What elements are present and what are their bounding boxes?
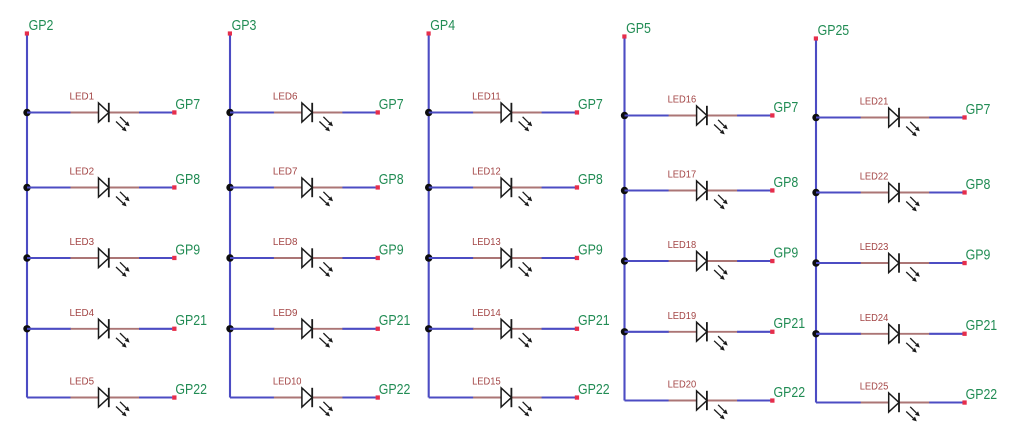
junction node GP3/LED6 [226, 109, 233, 116]
junction node GP2/LED2 [23, 184, 30, 191]
LED LED17 [669, 181, 738, 210]
wire GP5 to LED20 anode [625, 399, 670, 401]
svg-text:GP3: GP3 [232, 18, 257, 34]
svg-text:LED25: LED25 [860, 382, 889, 393]
LED LED25 [861, 393, 930, 422]
terminal GP22 [962, 400, 966, 404]
svg-text:GP21: GP21 [966, 318, 998, 334]
wire GP2 vertical bus [26, 36, 28, 398]
LED LED24 [861, 324, 930, 353]
svg-text:LED5: LED5 [70, 377, 95, 388]
LED LED2 [71, 178, 140, 207]
svg-text:LED22: LED22 [860, 172, 889, 183]
svg-text:LED17: LED17 [668, 170, 697, 181]
junction node GP2/LED3 [23, 254, 30, 261]
svg-text:GP7: GP7 [379, 97, 404, 113]
svg-text:GP9: GP9 [578, 242, 603, 258]
LED LED7 [274, 178, 343, 207]
terminal GP21 [575, 327, 579, 331]
terminal GP8 [770, 188, 774, 192]
svg-text:LED18: LED18 [668, 240, 697, 251]
wire GP3 to LED7 anode [230, 186, 274, 188]
terminal GP7 [770, 113, 774, 117]
svg-text:LED14: LED14 [472, 308, 501, 319]
svg-text:LED3: LED3 [70, 237, 95, 248]
wire LED7 cathode to GP8 [342, 186, 375, 188]
svg-text:GP8: GP8 [774, 175, 799, 191]
terminal GP9 [376, 256, 380, 260]
junction node GP4/LED14 [425, 325, 432, 332]
svg-text:GP7: GP7 [774, 100, 799, 116]
wire LED16 cathode to GP7 [737, 114, 770, 116]
wire GP2 to LED5 anode [27, 396, 71, 398]
svg-text:GP8: GP8 [966, 177, 991, 193]
svg-text:GP22: GP22 [175, 382, 207, 398]
wire GP4 vertical bus [428, 36, 430, 398]
svg-text:GP25: GP25 [818, 23, 850, 39]
svg-text:GP4: GP4 [430, 18, 455, 34]
wire GP3 to LED8 anode [230, 257, 274, 259]
wire GP3 to LED9 anode [230, 328, 274, 330]
svg-text:GP9: GP9 [175, 242, 200, 258]
LED LED21 [861, 108, 930, 137]
svg-text:GP2: GP2 [29, 18, 54, 34]
wire LED21 cathode to GP7 [929, 116, 962, 118]
LED LED13 [473, 248, 542, 277]
terminal GP22 [376, 395, 380, 399]
svg-text:GP21: GP21 [578, 313, 610, 329]
junction node GP25/LED23 [812, 259, 819, 266]
junction node GP25/LED22 [812, 189, 819, 196]
wire LED3 cathode to GP9 [139, 257, 172, 259]
wire LED1 cathode to GP7 [139, 111, 172, 113]
LED LED15 [473, 388, 542, 417]
terminal GP3 [228, 31, 232, 35]
junction node GP2/LED4 [23, 325, 30, 332]
terminal GP25 [814, 36, 818, 40]
LED LED4 [71, 319, 140, 348]
junction node GP5/LED16 [621, 112, 628, 119]
svg-text:LED21: LED21 [860, 97, 889, 108]
wire GP4 to LED13 anode [429, 257, 474, 259]
terminal GP8 [575, 185, 579, 189]
wire GP5 to LED19 anode [625, 331, 670, 333]
terminal GP2 [25, 31, 29, 35]
wire LED14 cathode to GP21 [542, 328, 575, 330]
junction node GP2/LED1 [23, 109, 30, 116]
wire GP2 to LED2 anode [27, 186, 71, 188]
wire LED15 cathode to GP22 [542, 396, 575, 398]
svg-text:LED23: LED23 [860, 242, 889, 253]
LED LED11 [473, 103, 542, 132]
terminal GP9 [770, 259, 774, 263]
LED LED23 [861, 253, 930, 282]
svg-text:GP21: GP21 [175, 313, 207, 329]
wire LED5 cathode to GP22 [139, 396, 172, 398]
LED LED20 [669, 391, 738, 420]
wire GP4 to LED11 anode [429, 111, 474, 113]
terminal GP21 [962, 332, 966, 336]
terminal GP8 [962, 190, 966, 194]
svg-text:GP21: GP21 [774, 316, 806, 332]
terminal GP8 [376, 185, 380, 189]
wire LED4 cathode to GP21 [139, 328, 172, 330]
wire LED19 cathode to GP21 [737, 331, 770, 333]
svg-text:LED24: LED24 [860, 313, 889, 324]
wire LED8 cathode to GP9 [342, 257, 375, 259]
wire GP25 to LED22 anode [816, 191, 861, 193]
junction node GP4/LED12 [425, 184, 432, 191]
wire GP25 to LED25 anode [816, 401, 861, 403]
terminal GP7 [172, 110, 176, 114]
terminal GP21 [172, 327, 176, 331]
svg-text:GP9: GP9 [379, 242, 404, 258]
terminal GP7 [962, 115, 966, 119]
svg-text:LED12: LED12 [472, 167, 501, 178]
wire GP25 to LED21 anode [816, 116, 861, 118]
wire LED24 cathode to GP21 [929, 333, 962, 335]
junction node GP25/LED21 [812, 114, 819, 121]
terminal GP9 [962, 261, 966, 265]
terminal GP22 [575, 395, 579, 399]
terminal GP9 [575, 256, 579, 260]
wire LED12 cathode to GP8 [542, 186, 575, 188]
svg-text:LED6: LED6 [273, 92, 298, 103]
junction node GP3/LED8 [226, 254, 233, 261]
LED LED8 [274, 248, 343, 277]
svg-text:LED9: LED9 [273, 308, 298, 319]
wire GP3 to LED6 anode [230, 111, 274, 113]
wire LED9 cathode to GP21 [342, 328, 375, 330]
svg-text:LED1: LED1 [70, 92, 95, 103]
wire GP3 to LED10 anode [230, 396, 274, 398]
terminal GP22 [770, 398, 774, 402]
junction node GP5/LED17 [621, 187, 628, 194]
svg-text:GP7: GP7 [578, 97, 603, 113]
svg-text:LED7: LED7 [273, 167, 298, 178]
wire GP5 to LED18 anode [625, 260, 670, 262]
wire GP5 to LED17 anode [625, 189, 670, 191]
wire GP5 vertical bus [623, 39, 625, 401]
terminal GP21 [770, 330, 774, 334]
svg-text:LED11: LED11 [472, 92, 501, 103]
wire GP25 vertical bus [815, 41, 817, 403]
wire GP2 to LED4 anode [27, 328, 71, 330]
terminal GP7 [575, 110, 579, 114]
svg-text:GP8: GP8 [578, 172, 603, 188]
svg-text:GP9: GP9 [774, 245, 799, 261]
LED LED5 [71, 388, 140, 417]
wire GP25 to LED24 anode [816, 333, 861, 335]
LED LED22 [861, 183, 930, 212]
wire LED22 cathode to GP8 [929, 191, 962, 193]
wire LED23 cathode to GP9 [929, 262, 962, 264]
svg-text:GP22: GP22 [774, 385, 806, 401]
wire GP5 to LED16 anode [625, 114, 670, 116]
svg-text:GP22: GP22 [379, 382, 411, 398]
terminal GP4 [427, 31, 431, 35]
wire GP2 to LED3 anode [27, 257, 71, 259]
terminal GP8 [172, 185, 176, 189]
LED LED16 [669, 106, 738, 135]
junction node GP3/LED9 [226, 325, 233, 332]
svg-text:GP7: GP7 [966, 102, 991, 118]
svg-text:GP21: GP21 [379, 313, 411, 329]
svg-text:LED13: LED13 [472, 237, 501, 248]
wire LED6 cathode to GP7 [342, 111, 375, 113]
junction node GP25/LED24 [812, 330, 819, 337]
svg-text:GP22: GP22 [966, 387, 998, 403]
wire LED10 cathode to GP22 [342, 396, 375, 398]
wire LED18 cathode to GP9 [737, 260, 770, 262]
LED LED10 [274, 388, 343, 417]
terminal GP7 [376, 110, 380, 114]
terminal GP21 [376, 327, 380, 331]
svg-text:LED4: LED4 [70, 308, 95, 319]
svg-text:GP9: GP9 [966, 247, 991, 263]
wire GP4 to LED12 anode [429, 186, 474, 188]
wire GP4 to LED14 anode [429, 328, 474, 330]
svg-text:LED19: LED19 [668, 311, 697, 322]
svg-text:LED10: LED10 [273, 377, 302, 388]
svg-text:GP7: GP7 [175, 97, 200, 113]
junction node GP5/LED18 [621, 257, 628, 264]
junction node GP5/LED19 [621, 328, 628, 335]
wire LED2 cathode to GP8 [139, 186, 172, 188]
LED LED9 [274, 319, 343, 348]
terminal GP9 [172, 256, 176, 260]
wire LED13 cathode to GP9 [542, 257, 575, 259]
junction node GP3/LED7 [226, 184, 233, 191]
LED LED14 [473, 319, 542, 348]
wire GP2 to LED1 anode [27, 111, 71, 113]
terminal GP22 [172, 395, 176, 399]
LED LED1 [71, 103, 140, 132]
wire LED25 cathode to GP22 [929, 401, 962, 403]
wire LED11 cathode to GP7 [542, 111, 575, 113]
wire GP25 to LED23 anode [816, 262, 861, 264]
svg-text:GP8: GP8 [379, 172, 404, 188]
svg-text:GP22: GP22 [578, 382, 610, 398]
junction node GP4/LED13 [425, 254, 432, 261]
wire LED17 cathode to GP8 [737, 189, 770, 191]
svg-text:LED16: LED16 [668, 95, 697, 106]
svg-text:LED2: LED2 [70, 167, 95, 178]
svg-text:LED20: LED20 [668, 380, 697, 391]
svg-text:LED8: LED8 [273, 237, 298, 248]
LED LED6 [274, 103, 343, 132]
svg-text:GP5: GP5 [626, 21, 651, 37]
wire GP4 to LED15 anode [429, 396, 474, 398]
terminal GP5 [622, 34, 626, 38]
svg-text:LED15: LED15 [472, 377, 501, 388]
LED LED18 [669, 251, 738, 280]
wire LED20 cathode to GP22 [737, 399, 770, 401]
LED LED19 [669, 322, 738, 351]
junction node GP4/LED11 [425, 109, 432, 116]
wire GP3 vertical bus [229, 36, 231, 398]
LED LED12 [473, 178, 542, 207]
svg-text:GP8: GP8 [175, 172, 200, 188]
LED LED3 [71, 248, 140, 277]
